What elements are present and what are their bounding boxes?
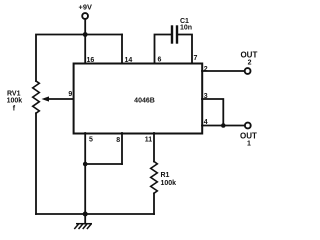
svg-text:OUT: OUT [240, 131, 257, 140]
svg-text:2: 2 [204, 66, 208, 73]
node : pin3/pin4 junction [221, 123, 226, 128]
svg-text:100k: 100k [7, 98, 23, 105]
svg-text:4: 4 [204, 119, 208, 126]
wire : pin 14 riser [121, 35, 123, 64]
svg-text:5: 5 [89, 136, 93, 143]
node : ground junction [83, 212, 88, 217]
svg-text:14: 14 [125, 57, 133, 64]
wire : pin 9 wiper [47, 98, 74, 100]
wire : C1 right to pin 7 riser [178, 35, 192, 64]
op-amp U1 : 4046B IC body [74, 64, 203, 134]
wire : pin 5 drop [84, 133, 86, 214]
svg-text:6: 6 [158, 57, 162, 64]
wire : pin 4 to OUT 1 [202, 125, 245, 127]
wire : +9V stub [84, 19, 86, 35]
svg-text:11: 11 [145, 137, 153, 144]
svg-text:+9V: +9V [79, 3, 92, 12]
terminal +9V [82, 13, 88, 19]
wire : pin 8 drop [121, 133, 123, 164]
svg-text:8: 8 [116, 137, 120, 144]
wire : pin 2 to OUT 2 [202, 70, 245, 72]
svg-text:RV1: RV1 [7, 90, 21, 97]
svg-text:OUT: OUT [240, 50, 257, 59]
resistor R1 zigzag [151, 162, 158, 194]
wire : top supply rail [36, 35, 122, 82]
terminal OUT 2 [245, 68, 251, 74]
node : +9V rail junction [83, 32, 88, 37]
svg-text:10n: 10n [180, 24, 192, 31]
svg-text:4046B: 4046B [134, 98, 155, 105]
svg-text:7: 7 [194, 55, 198, 62]
svg-text:2: 2 [248, 60, 252, 67]
svg-text:3: 3 [204, 93, 208, 100]
resistor RV1 zigzag [33, 81, 40, 113]
wire : left rail down to ground rail [35, 113, 37, 214]
wire : pin 3 loop to pin 4 [202, 99, 223, 126]
wire : pin 11 drop to R1 [153, 133, 155, 162]
ground [74, 224, 92, 229]
wire : pin 6 riser to C1 left [155, 35, 171, 64]
svg-text:1: 1 [247, 141, 251, 148]
node : pin5/pin8 junction [83, 162, 88, 167]
svg-text:16: 16 [87, 57, 95, 64]
terminal OUT 1 [245, 123, 251, 129]
RV1 wiper arrowhead [42, 96, 50, 101]
wire : ground stub [84, 214, 86, 223]
svg-text:9: 9 [68, 91, 72, 98]
wire : bottom ground rail [36, 213, 154, 215]
svg-text:R1: R1 [161, 172, 170, 179]
wire : pin 5 to pin 8 tie [85, 163, 122, 165]
wire : R1 bottom to ground rail [153, 193, 155, 214]
capacitor C1 plates [171, 27, 173, 43]
wire : pin 16 riser [84, 35, 86, 64]
svg-text:100k: 100k [161, 180, 177, 187]
